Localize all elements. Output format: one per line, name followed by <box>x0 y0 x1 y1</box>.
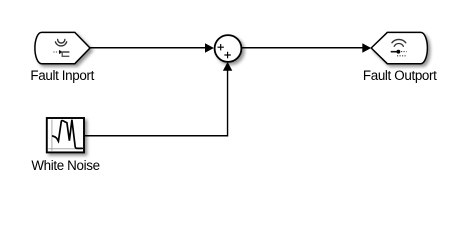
arrowhead: into sum left input <box>205 43 214 52</box>
icon: outport broadcast arcs <box>392 39 406 46</box>
icon: inport fault arrow and bracket <box>53 50 69 56</box>
arrowhead: into sum bottom input <box>223 62 232 71</box>
svg-text:Fault Inport: Fault Inport <box>30 68 94 83</box>
sum sign + (left input) <box>218 44 224 50</box>
arrowhead: into outport <box>362 43 371 52</box>
sum block <box>215 35 242 62</box>
svg-text:Fault Outport: Fault Outport <box>363 68 437 83</box>
block: Fault Inport <box>35 32 90 63</box>
icon: inport receive arcs <box>55 39 66 46</box>
sum sign + (bottom input) <box>224 52 230 58</box>
icon: outport line, dot and dashes <box>391 50 407 56</box>
block: Fault Outport <box>371 32 427 63</box>
svg-text:White Noise: White Noise <box>31 158 99 173</box>
icon: plot axes <box>48 120 83 151</box>
icon: noise waveform <box>53 120 82 149</box>
wire: inport to sum <box>90 47 206 49</box>
wire: sum to outport <box>241 47 363 49</box>
wire: white noise to sum (L-shaped) <box>85 70 228 136</box>
block: White Noise <box>47 118 84 152</box>
